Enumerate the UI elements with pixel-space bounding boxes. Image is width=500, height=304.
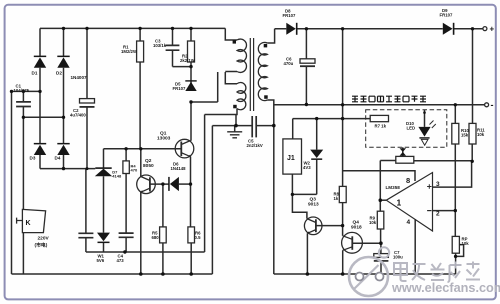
wire C1 column — [22, 91, 24, 117]
polarity mark secondary top — [264, 44, 268, 48]
svg-text:2: 2 — [436, 211, 440, 218]
diode D7 — [443, 23, 455, 35]
diode D6 — [286, 23, 297, 35]
svg-text:+: + — [490, 25, 495, 34]
wire bottom rail primary — [12, 273, 213, 275]
wire AC plug column — [22, 117, 24, 274]
varistor mark under dashed box — [400, 148, 407, 156]
transformer primary winding — [237, 39, 246, 72]
wire Q2 collector column — [140, 149, 142, 177]
diode D5 — [185, 80, 196, 91]
resistor R2 — [188, 41, 195, 62]
diode D3 — [34, 143, 46, 155]
svg-text:220V: 220V — [38, 236, 50, 242]
wire Q2 emitter column — [140, 192, 142, 274]
transistor Q3 — [304, 217, 322, 235]
wire diode-zener column — [103, 149, 105, 252]
resistor R126 — [123, 161, 129, 174]
terminal plus — [483, 27, 487, 31]
wire R2 top — [190, 28, 192, 66]
wire AC line upper — [12, 90, 41, 92]
wire secondary top riser — [267, 29, 274, 43]
svg-text:R60.5: R60.5 — [195, 231, 202, 240]
wire Q3 emitter drop — [306, 233, 308, 274]
resistor R343 — [339, 186, 346, 202]
svg-text:(市电): (市电) — [35, 242, 48, 249]
zener W2 — [310, 150, 323, 160]
wire pin3 net — [433, 161, 472, 187]
wire R414 left lead — [380, 160, 396, 162]
svg-text:D10LED: D10LED — [406, 121, 415, 130]
watermark logo circle — [349, 247, 389, 296]
transistor Q4 — [342, 232, 363, 253]
wire Q1 collector column — [190, 67, 192, 141]
svg-text:3: 3 — [436, 181, 440, 188]
wire pot bottom — [455, 253, 457, 274]
wire Q3 base row — [316, 225, 342, 227]
wire bridge bottom — [40, 168, 95, 170]
svg-text:www.elecfans.com: www.elecfans.com — [391, 281, 500, 295]
wire R414 right lead — [414, 160, 472, 162]
wire AC left vertical — [11, 91, 13, 274]
zener W1 — [97, 233, 110, 244]
wire Q4 emitter — [342, 250, 344, 274]
wire ground stub — [234, 126, 236, 132]
wire J1 top — [292, 119, 294, 139]
wire R455 column — [454, 105, 456, 237]
svg-text:8: 8 — [406, 176, 410, 185]
terminal minus — [485, 103, 489, 107]
svg-text:1N4007: 1N4007 — [71, 75, 88, 80]
resistor R163 — [160, 227, 167, 243]
wire D1 column — [39, 28, 41, 91]
diode D2 — [57, 56, 69, 68]
svg-text:W15V6: W15V6 — [97, 254, 105, 263]
resistor boxR in dashed box — [370, 115, 388, 121]
capacitor capE — [374, 254, 389, 261]
wire U outer leg — [211, 126, 213, 274]
capacitor C3 — [166, 45, 180, 50]
wire pot wiper — [456, 245, 464, 257]
svg-text:D4: D4 — [55, 156, 61, 161]
wire Q4 base row — [353, 242, 381, 244]
wire AC line lower — [23, 116, 63, 118]
capacitor cap126 — [119, 233, 134, 237]
wire R163 column — [162, 184, 164, 274]
op-amp LM358 — [386, 173, 432, 232]
wire aux exit — [205, 109, 237, 115]
wire Q1 emitter — [190, 157, 192, 185]
wire R190 column — [190, 184, 193, 274]
op-amp minus input mark — [427, 210, 431, 212]
wire bottom rail secondary — [274, 273, 456, 275]
svg-text:-: - — [491, 100, 494, 110]
wire R343 bottom — [342, 203, 344, 226]
diode protection at Q1 base column — [95, 167, 112, 176]
wire Cout column — [305, 29, 307, 105]
capacitor Cout — [300, 59, 315, 66]
wire D4 column — [63, 117, 65, 168]
svg-text:R1110k: R1110k — [477, 128, 485, 137]
wire mid ground row — [212, 125, 273, 127]
optocoupler J1 box — [283, 139, 302, 174]
resistor R455 — [452, 123, 459, 144]
wire R472 column — [471, 29, 473, 162]
svg-text:D3: D3 — [30, 156, 36, 161]
svg-text:R7 1k: R7 1k — [375, 124, 387, 129]
wire line A — [86, 251, 205, 253]
wire Q2 base row — [150, 183, 169, 185]
svg-text:D1: D1 — [32, 71, 38, 76]
AC plug — [17, 209, 46, 232]
wire J1 feed row — [293, 118, 371, 120]
transformer aux winding — [237, 83, 246, 110]
wire D3 column — [39, 91, 41, 168]
annotation optional dashed note — [352, 96, 426, 102]
wire zener node row — [292, 193, 316, 195]
wire pin2 row — [433, 210, 456, 212]
wire main column x343 — [342, 29, 344, 187]
wire R2 C3 bottom row — [173, 50, 192, 66]
svg-text:J1: J1 — [287, 155, 295, 162]
capacitor Y-cap — [252, 116, 256, 137]
wire cap85 column — [85, 169, 87, 252]
wire aux drop — [235, 115, 237, 126]
wire C2 column — [86, 28, 88, 168]
LED D10 — [418, 121, 435, 146]
capacitor C2 — [80, 99, 95, 107]
wire Q1 base row — [104, 148, 182, 150]
wire collector node row — [191, 101, 218, 103]
diode D4 — [57, 143, 69, 155]
watermark chinese text — [394, 262, 480, 283]
dashed optional box — [366, 110, 447, 148]
watermark logo pins — [356, 273, 384, 281]
wire C3 top — [172, 28, 174, 45]
svg-text:K: K — [26, 220, 31, 227]
transistor Q1 emitter arrow — [189, 155, 191, 157]
op-amp plus input mark — [427, 184, 431, 188]
wire winding1 exit — [218, 72, 237, 103]
svg-text:4: 4 — [407, 219, 411, 226]
wire D2 column — [63, 28, 65, 117]
wire opamp out row — [380, 199, 386, 201]
capacitor cap85 — [78, 233, 93, 237]
capacitor C1 — [16, 102, 31, 107]
ground — [227, 132, 242, 138]
diode 1N4148 — [168, 177, 179, 191]
wire Q4 collector — [342, 226, 344, 236]
resistor R190 — [188, 227, 195, 243]
polarity mark primary — [233, 40, 236, 43]
wire x273 drop to rail — [273, 126, 275, 274]
transistor Q2 — [137, 175, 156, 194]
svg-text:1: 1 — [397, 198, 402, 208]
wire pin4 column — [414, 219, 416, 274]
wire J1 bottom — [291, 174, 293, 194]
transformer core — [250, 38, 253, 111]
resistor R1 — [137, 41, 144, 62]
wire LED column — [424, 110, 426, 127]
wire pin8 row — [343, 171, 415, 181]
wire box resistor stub — [402, 147, 404, 156]
transformer secondary winding — [258, 42, 267, 100]
wire capE column — [380, 243, 382, 274]
transistor Q3 emitter arrow — [307, 231, 309, 233]
potentiometer — [452, 236, 461, 253]
wire R1 bottom — [139, 62, 141, 149]
wire 4148 to Q1 emitter — [179, 183, 191, 185]
wire top rail secondary — [275, 28, 484, 30]
polarity mark aux — [233, 105, 237, 109]
wire minus rail — [274, 104, 485, 106]
wire R126 column — [125, 149, 127, 252]
svg-text:LM358: LM358 — [386, 185, 401, 190]
resistor R472 — [469, 123, 476, 144]
resistor R414 — [396, 156, 414, 163]
wire U inner leg — [204, 115, 206, 253]
svg-text:D2: D2 — [56, 71, 62, 76]
resistor R380 — [377, 211, 384, 229]
transistor Q1 — [175, 139, 194, 158]
wire winding1 feed — [225, 28, 237, 40]
wire Q3 collector path — [292, 194, 307, 218]
wire aux riser — [225, 72, 237, 84]
wire secondary bottom riser — [267, 100, 274, 126]
wire top rail primary — [40, 27, 225, 29]
wire R1 top — [139, 28, 141, 41]
transistor Q2 emitter arrow — [141, 190, 143, 192]
wire R380 column — [379, 161, 381, 244]
polarity mark secondary bottom — [264, 95, 268, 99]
wire W2 column — [316, 119, 318, 195]
diode D1 — [34, 56, 46, 68]
